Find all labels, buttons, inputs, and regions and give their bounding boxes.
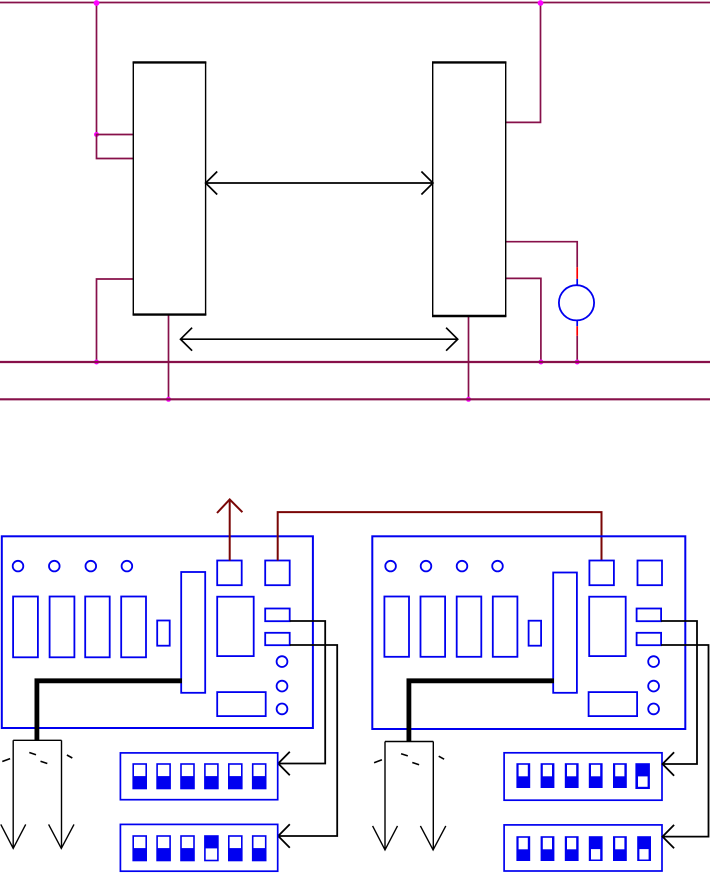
board right IC4 [493, 597, 518, 657]
wire top bus [0, 2, 710, 4]
SW2 right switch 3 [565, 836, 579, 861]
board left outline [2, 536, 313, 728]
SW1 right switch 6 (up) [635, 763, 650, 789]
SW1 right switch 4 [589, 763, 603, 788]
board right square pad 2 [638, 561, 663, 586]
SW2 left switch 6 [253, 836, 266, 861]
pin red segment above meter [576, 267, 578, 279]
wire black header2-right to DIP2-right [661, 645, 708, 848]
wire stub upper pin pair of left block [97, 135, 134, 159]
junction at left block upper pin [94, 132, 99, 137]
board left hole 1 [13, 561, 24, 572]
SW2 right switch 5 [613, 836, 627, 861]
SW2 left switch 3 [181, 836, 194, 861]
board left hole 4 [122, 561, 133, 572]
cable connector left [1, 740, 74, 848]
SW2 left switch 1 [133, 836, 146, 861]
board right square pad 1 [589, 561, 614, 586]
wire black header2-left to DIP2-left [278, 645, 337, 848]
wire right block top pin up to top bus [506, 3, 541, 123]
SW2 left switch 5 [229, 836, 242, 861]
DIP switch block SW1 right [504, 753, 662, 800]
DIP switch block SW2 left [120, 824, 277, 871]
SW1 right switch 2 [541, 763, 555, 788]
board left header 2 [265, 633, 290, 645]
board right hole 2 [421, 561, 432, 572]
SW2 left switch 4 (up) [205, 836, 218, 861]
board right hole 1 [385, 561, 396, 572]
board left hole 6 [277, 681, 288, 692]
thick cable right board [409, 681, 554, 742]
thick cable left board [37, 681, 182, 741]
board left bottom part [217, 692, 266, 716]
pin blue segment below meter [576, 320, 578, 326]
board right small part [529, 621, 542, 646]
cable strain marks left [2, 753, 72, 764]
SW1 left switch 2 [157, 764, 170, 789]
cable connector right [373, 742, 446, 850]
board right hole 4 [492, 561, 503, 572]
board right hole 6 [648, 681, 659, 692]
wire dark-red pad2 left board to pad1 right board [278, 512, 602, 560]
board left small part [157, 621, 170, 646]
wire left block bottom pin to bus2 [168, 315, 170, 400]
board left IC1 [13, 597, 38, 658]
bus2 horizontal [0, 398, 710, 400]
pin red segment below meter [576, 326, 578, 336]
board left hole 7 [277, 704, 288, 715]
SW1 left switch 3 [181, 764, 194, 789]
SW1 right switch 3 [565, 763, 579, 788]
DIP switch block SW2 right [504, 825, 662, 871]
junction on bus2 under right block [466, 397, 471, 402]
SW1 left switch 4 [205, 764, 218, 789]
SW2 right switch 6 (up) [637, 836, 651, 861]
board right IC2 [421, 597, 446, 657]
wire right block pin to meter [506, 242, 578, 268]
board left square pad 1 [217, 561, 242, 586]
board left hole 5 [277, 656, 288, 667]
board right edge connector [553, 573, 577, 693]
board left big IC [217, 597, 254, 656]
SW1 left switch 5 [229, 764, 242, 789]
board right header 2 [637, 633, 662, 645]
wire right block bottom pin to bus2 [468, 316, 470, 399]
bus1 horizontal [0, 361, 710, 363]
board right hole 3 [457, 561, 468, 572]
SW2 right switch 4 (up) [589, 836, 603, 861]
junction meter on bus1 [575, 360, 580, 365]
board left IC3 [85, 597, 110, 658]
arrow double upper between blocks [206, 172, 433, 195]
junction top-right [538, 0, 544, 6]
SW2 right switch 2 [541, 836, 555, 861]
SW1 right switch 1 [516, 763, 530, 788]
power arrow up from left board pad1 [217, 499, 242, 560]
wire meter to bus1 [576, 336, 578, 362]
board right IC1 [384, 597, 409, 657]
board left edge connector [181, 572, 205, 693]
block left [133, 62, 205, 314]
board left IC2 [50, 597, 75, 658]
junction top-left [94, 0, 100, 6]
wire black header1-right to DIP1-right [661, 621, 697, 776]
cable strain marks right [374, 754, 444, 765]
SW1 right switch 5 [613, 763, 627, 788]
wire right block mid pin down to bus1 [506, 278, 541, 362]
wire vertical from top bus to left block upper pin [96, 3, 98, 135]
board right IC3 [457, 597, 482, 657]
arrow double lower between block bottoms [181, 328, 458, 351]
wire black header1-left to DIP1-left [278, 621, 325, 775]
board right outline [372, 536, 685, 729]
SW1 left switch 1 [133, 764, 146, 789]
wire lower-left pin of left block down to bus1 [97, 279, 134, 362]
board right header 1 [637, 609, 662, 622]
block right [433, 62, 506, 316]
board right hole 7 [648, 704, 659, 715]
board left header 1 [265, 609, 290, 622]
DIP switch block SW1 left [120, 753, 277, 800]
board right hole 5 [648, 656, 659, 667]
board right big IC [589, 597, 626, 656]
meter M1 circle [559, 285, 594, 320]
board right bottom part [589, 692, 638, 716]
SW2 left switch 2 [157, 836, 170, 861]
junction on bus2 under left block [166, 397, 171, 402]
board left hole 2 [49, 561, 60, 572]
pin blue segment above meter [576, 279, 578, 286]
board left hole 3 [86, 561, 97, 572]
SW2 right switch 1 [516, 836, 530, 861]
board left square pad 2 [265, 561, 290, 586]
board left IC4 [121, 597, 146, 658]
SW1 left switch 6 [253, 764, 266, 789]
junction mid pin on bus1 [538, 360, 543, 365]
junction lower-left on bus1 [94, 360, 99, 365]
